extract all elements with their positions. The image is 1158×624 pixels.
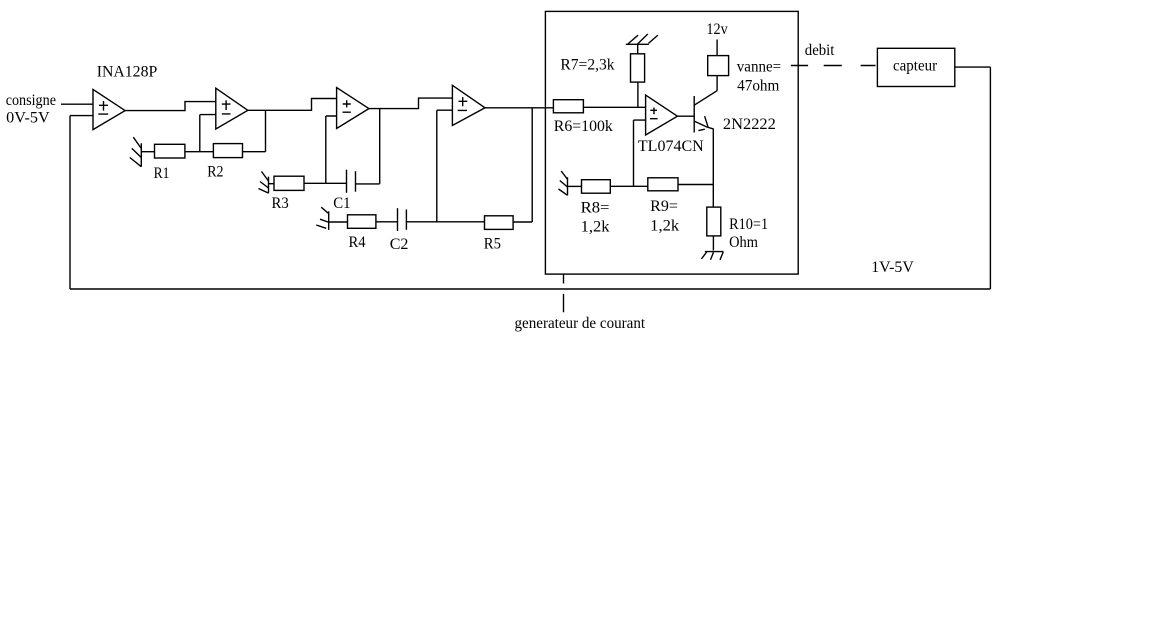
svg-text:consigne: consigne: [6, 92, 56, 109]
wire U2 output to U3 + input: [248, 99, 337, 111]
svg-text:C1: C1: [333, 195, 350, 212]
resistor R10: [707, 207, 721, 236]
valve label: [737, 59, 781, 95]
svg-text:0V-5V: 0V-5V: [6, 109, 50, 126]
svg-text:2N2222: 2N2222: [723, 116, 776, 133]
capacitor C1: [347, 170, 356, 193]
wire U3 output to U4 + input: [369, 98, 453, 109]
svg-text:1,2k: 1,2k: [581, 218, 610, 235]
wire R3 to node: [304, 182, 326, 184]
wire U2 - input vertical: [200, 115, 216, 152]
resistor R7: [631, 54, 645, 82]
ground at R8: [559, 171, 568, 195]
svg-text:12v: 12v: [706, 21, 727, 38]
svg-text:capteur: capteur: [893, 58, 938, 75]
svg-text:R8=: R8=: [581, 200, 610, 217]
ground at R4: [316, 207, 329, 230]
ground at R3: [259, 172, 269, 194]
op-amp U4: [452, 85, 485, 125]
wire R10 to ground: [712, 236, 714, 251]
resistor R9: [648, 178, 678, 191]
svg-text:TL074CN: TL074CN: [638, 138, 704, 155]
op-amp U3: [337, 88, 369, 129]
wire R1 to R2: [185, 151, 214, 153]
resistor R10 label: [729, 216, 768, 251]
svg-text:INA128P: INA128P: [97, 64, 158, 81]
op-amp U5 TL074CN: [646, 95, 678, 135]
wire R5 to U4 output feedback: [513, 108, 532, 222]
svg-text:debit: debit: [805, 42, 835, 59]
svg-text:1V-5V: 1V-5V: [871, 259, 914, 276]
wire R4 to C2: [376, 221, 398, 223]
ground at R1: [130, 137, 142, 167]
wire U3 - input vertical: [326, 116, 337, 183]
wire Q1 emitter to R10: [712, 129, 714, 208]
op-amp U1 INA128P: [93, 89, 125, 129]
wire 12v to vanne: [716, 40, 718, 56]
resistor R9 label: [650, 198, 679, 234]
wire consigne to U1 + input: [61, 103, 93, 105]
wire dashed debit line: [791, 65, 876, 67]
svg-text:47ohm: 47ohm: [737, 77, 780, 94]
resistor R1: [155, 144, 185, 158]
svg-text:R3: R3: [272, 195, 289, 212]
svg-text:R4: R4: [349, 234, 366, 251]
wire U1 - input: [70, 115, 93, 117]
wire C2 to R5 node: [406, 221, 484, 223]
svg-text:vanne=: vanne=: [737, 59, 781, 76]
wire R9 to emitter node: [678, 184, 713, 186]
transistor Q1 2N2222: [694, 91, 717, 133]
wire Q1 collector to vanne: [716, 76, 718, 91]
svg-text:R2: R2: [207, 164, 223, 181]
wire R7 to + input wire: [637, 82, 639, 107]
wire U4 - input vertical: [437, 110, 453, 222]
resistor R3: [274, 176, 304, 190]
op-amp U2: [216, 88, 248, 129]
wire R8 to R9: [610, 185, 648, 187]
svg-text:R10=1: R10=1: [729, 216, 768, 233]
wire C1 to U3 output feedback: [356, 109, 380, 184]
wire R2 to U2 output feedback: [243, 110, 266, 151]
resistor R2: [213, 144, 242, 158]
wire U5 - input vertical: [634, 120, 646, 186]
wire ground to R8: [568, 185, 582, 187]
box generateur de courant: [545, 11, 798, 274]
resistor R4: [348, 215, 376, 229]
resistor R5: [485, 216, 514, 230]
wire feedback bottom: [70, 288, 990, 290]
wire ground to R4: [329, 221, 348, 223]
svg-text:R6=100k: R6=100k: [554, 118, 613, 135]
svg-text:C2: C2: [390, 236, 409, 253]
node consigne label: [6, 92, 56, 127]
svg-text:R1: R1: [154, 165, 170, 182]
wire box stem to label: [563, 274, 565, 312]
capacitor C2: [398, 208, 407, 231]
wire ground to R1: [141, 151, 154, 153]
svg-text:Ohm: Ohm: [729, 234, 758, 251]
ground above R7: [626, 34, 658, 54]
valve vanne 47ohm: [708, 56, 729, 76]
wire U4 output to R6: [485, 107, 553, 109]
svg-text:R5: R5: [484, 235, 501, 252]
wire R6 to U5 + input: [583, 106, 645, 108]
ground below R10: [702, 252, 724, 260]
wire ground to R3: [269, 183, 275, 185]
svg-text:R7=2,3k: R7=2,3k: [560, 56, 614, 73]
wire U5 output to Q1 base: [677, 115, 694, 117]
svg-text:generateur de courant: generateur de courant: [515, 315, 646, 332]
wire node to C1: [326, 182, 347, 184]
wire U1 output to U2 + input: [125, 102, 216, 111]
wire capteur output down: [955, 67, 991, 289]
resistor R8 label: [581, 200, 610, 236]
resistor R8: [582, 180, 611, 194]
resistor R6: [553, 100, 583, 113]
svg-text:R9=: R9=: [650, 198, 678, 215]
svg-text:1,2k: 1,2k: [650, 218, 679, 235]
wire feedback left vertical: [69, 116, 71, 289]
sensor capteur box: [877, 48, 954, 86]
